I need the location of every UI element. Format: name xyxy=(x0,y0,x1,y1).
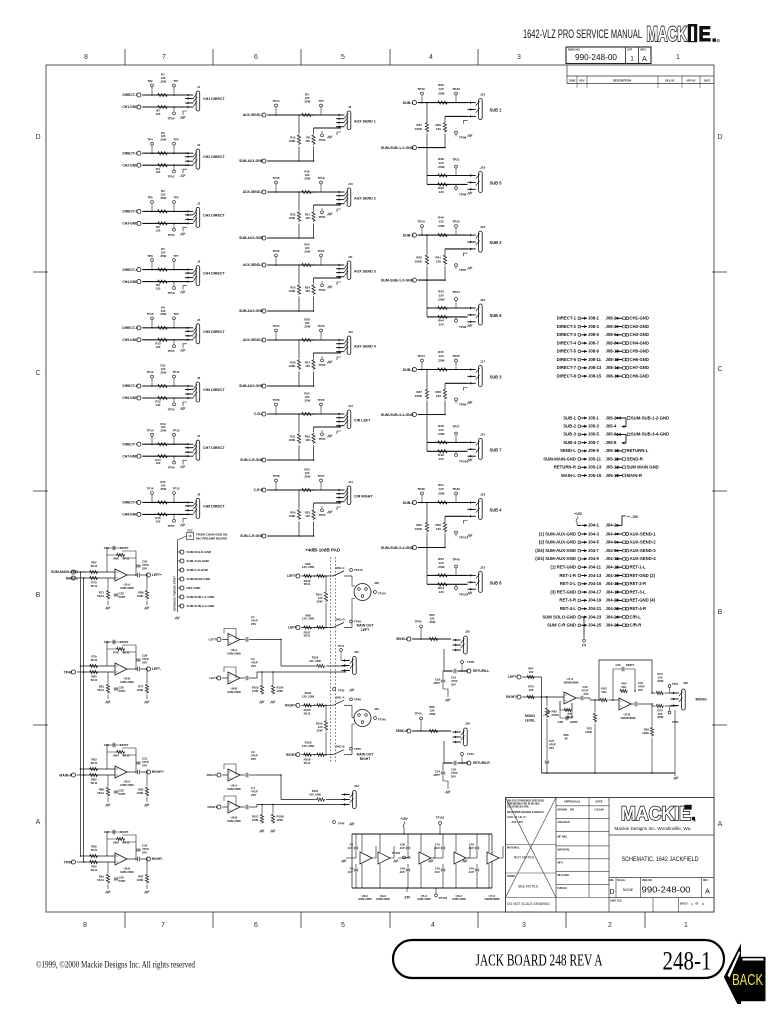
svg-text:.1UF: .1UF xyxy=(399,870,405,874)
svg-text:8: 8 xyxy=(84,54,88,61)
svg-text:NJM 2068: NJM 2068 xyxy=(227,690,241,694)
junction dots on input wire xyxy=(275,489,277,491)
resistor R16 120 .25W xyxy=(301,190,312,193)
wire DIRECT-1 to jack J1 tip xyxy=(142,94,187,96)
svg-text:.XXX ±.005: .XXX ±.005 xyxy=(511,822,523,824)
svg-text:100K: 100K xyxy=(289,289,297,293)
svg-text:RET-1-L: RET-1-L xyxy=(630,565,647,570)
svg-text:DWG NO.: DWG NO. xyxy=(642,880,653,882)
svg-text:CH5-GND: CH5-GND xyxy=(630,349,649,354)
svg-text:J18: J18 xyxy=(480,493,485,497)
feedback loop wires xyxy=(107,642,122,666)
test point TP99 and ground xyxy=(455,317,457,319)
svg-text:.25W: .25W xyxy=(304,324,311,328)
jack J6 CH6 DIRECT xyxy=(196,382,200,402)
resistor R35 120 .25W xyxy=(437,101,448,104)
svg-text:SEND-R: SEND-R xyxy=(627,456,643,461)
wire SUM-C-R-GND ground bus xyxy=(267,535,313,537)
PAD branch RIGHT+ (R101 R105 SW1-A) xyxy=(285,691,361,715)
svg-text:TP92: TP92 xyxy=(319,288,326,292)
decoupling caps C41/C42 .1UF xyxy=(428,834,445,888)
svg-text:J17: J17 xyxy=(480,360,485,364)
wire SUM-AUX-GND ground bus xyxy=(267,237,313,239)
svg-text:J08-9: J08-9 xyxy=(588,349,600,354)
svg-text:TP38: TP38 xyxy=(417,487,425,491)
decoupling caps C39/C40 .1UF xyxy=(393,834,410,888)
svg-text:TP11: TP11 xyxy=(173,370,180,374)
svg-text:DIRECT-1: DIRECT-1 xyxy=(122,93,137,97)
svg-text:120: 120 xyxy=(305,514,310,518)
svg-text:5K11: 5K11 xyxy=(97,594,104,598)
svg-text:DO NOT SCALE DRAWING: DO NOT SCALE DRAWING xyxy=(507,902,550,906)
svg-text:SUB-4: SUB-4 xyxy=(563,440,576,445)
svg-text:TP16: TP16 xyxy=(147,487,154,491)
wire CH5-GND to jack J5 sleeve xyxy=(142,339,187,341)
svg-text:J04-9: J04-9 xyxy=(588,556,600,561)
svg-text:TP98: TP98 xyxy=(459,193,467,197)
svg-text:J20: J20 xyxy=(480,298,485,302)
svg-text:CH6 DIRECT: CH6 DIRECT xyxy=(203,388,226,392)
resistor R89 5K11 feedback xyxy=(116,553,125,556)
resistors R53/R54 120 .25W xyxy=(437,574,448,577)
svg-text:REV. BY: REV. BY xyxy=(665,79,675,82)
SUB 3/SUB 7 jack block xyxy=(381,350,502,464)
jack J2 CH2 DIRECT xyxy=(196,149,200,169)
svg-text:TP101: TP101 xyxy=(459,536,468,540)
svg-text:DIRECT-4: DIRECT-4 xyxy=(122,268,137,272)
-15V label and TP104 xyxy=(404,887,448,900)
svg-text:NJM 2068: NJM 2068 xyxy=(358,897,372,901)
capacitor C55 50PF xyxy=(114,791,118,793)
svg-text:B: B xyxy=(718,609,723,616)
wire SUB-4 to jack J18 tip xyxy=(418,502,468,504)
resistor R5 120 .25W xyxy=(301,113,312,116)
svg-text:CH1 DIRECT: CH1 DIRECT xyxy=(203,97,226,101)
resistor R14 120 xyxy=(157,455,168,458)
svg-text:.25W: .25W xyxy=(160,79,167,83)
resistors R48/R49 120 .25W xyxy=(437,441,448,444)
svg-text:SUM-SUB-3-4-GND: SUM-SUB-3-4-GND xyxy=(381,413,414,417)
jack J20 SUB 6 xyxy=(479,304,483,325)
svg-text:6: 6 xyxy=(254,922,258,929)
svg-text:J1: J1 xyxy=(197,85,201,89)
svg-text:120 .25W: 120 .25W xyxy=(302,695,315,699)
svg-text:J04-21: J04-21 xyxy=(588,606,602,611)
AUX SEND 3 jack block xyxy=(239,243,376,314)
wire DIRECT-3 to jack J3 tip xyxy=(142,210,187,212)
svg-text:RIGHT-: RIGHT- xyxy=(286,753,297,757)
svg-text:1-22-99: 1-22-99 xyxy=(594,808,604,812)
capacitor C26 150PF feedback xyxy=(113,640,115,644)
wire ring contact to jack J10 xyxy=(314,204,342,206)
jack J17 SUB 3 xyxy=(479,366,483,387)
svg-text:RIGHT: RIGHT xyxy=(360,757,372,761)
test point TP32 xyxy=(455,228,457,236)
svg-text:248-1: 248-1 xyxy=(663,947,712,976)
resistor R77 100K output load and ground xyxy=(146,669,148,683)
SUB 1/SUB 5 jack block xyxy=(381,83,502,197)
svg-text:8: 8 xyxy=(83,922,87,929)
svg-text:J08-3: J08-3 xyxy=(588,324,600,329)
wires to op-amp U6-A inputs xyxy=(81,768,116,770)
svg-text:TP95: TP95 xyxy=(319,513,326,517)
svg-text:.1UF: .1UF xyxy=(347,870,353,874)
jack J12 AUX SEND 4 xyxy=(347,336,351,355)
svg-text:DATE: DATE xyxy=(595,800,602,804)
svg-text:RETURN-L: RETURN-L xyxy=(473,669,489,673)
svg-text:CH7-GND: CH7-GND xyxy=(122,454,138,458)
op-amp U7-A NJM4560M mono stage 1 xyxy=(558,677,590,740)
svg-text:SUM MAIN GND: SUM MAIN GND xyxy=(627,465,659,470)
svg-text:J29: J29 xyxy=(374,581,379,585)
resistor R78 5K11 feedback xyxy=(116,647,125,650)
svg-text:SUB 2: SUB 2 xyxy=(490,240,503,245)
svg-text:TP32: TP32 xyxy=(452,220,460,224)
svg-text:I: I xyxy=(690,23,696,46)
svg-text:6: 6 xyxy=(254,54,258,61)
svg-text:J04-19: J04-19 xyxy=(588,598,602,603)
svg-text:TP57: TP57 xyxy=(168,524,175,528)
wire SUM-SUB-1-2-GND ground bus xyxy=(418,279,445,281)
svg-text:100: 100 xyxy=(529,670,534,674)
svg-text:RET-2-R: RET-2-R xyxy=(630,581,647,586)
test point TP56 xyxy=(173,456,175,461)
test point TP33 xyxy=(421,228,423,236)
svg-text:150PF: 150PF xyxy=(120,640,129,644)
svg-text:5K11: 5K11 xyxy=(97,688,104,692)
svg-text:DIRECT-6: DIRECT-6 xyxy=(122,384,137,388)
svg-text:TP46: TP46 xyxy=(354,698,361,702)
test point TP96 and ground xyxy=(455,131,458,134)
svg-text:SUB-2: SUB-2 xyxy=(403,233,414,237)
resistor R23 120 .25W xyxy=(301,263,312,266)
svg-text:120: 120 xyxy=(156,228,161,232)
svg-text:(1): (1) xyxy=(582,643,586,647)
drawing border frame xyxy=(46,65,714,912)
junction dots on input wire xyxy=(275,114,277,116)
svg-text:SUM-SUB-3-4-GND: SUM-SUB-3-4-GND xyxy=(381,546,414,550)
svg-text:120 .25W: 120 .25W xyxy=(302,617,315,621)
svg-text:SUM-AUX-GND: SUM-AUX-GND xyxy=(187,559,210,563)
svg-text:RET-4-L: RET-4-L xyxy=(560,606,577,611)
svg-text:.25W: .25W xyxy=(429,620,436,624)
svg-text:J33: J33 xyxy=(354,784,359,788)
svg-text:100K: 100K xyxy=(642,731,650,735)
svg-text:J08-15: J08-15 xyxy=(588,373,602,378)
test point TP12 xyxy=(151,378,153,386)
svg-text:TP123: TP123 xyxy=(392,851,401,855)
svg-text:J04-25: J04-25 xyxy=(588,623,602,628)
wire ring contact to jack J18 xyxy=(445,515,468,517)
svg-text:TP9: TP9 xyxy=(173,312,179,316)
op-amp U6-A triangle xyxy=(115,766,127,778)
svg-text:120 .25W: 120 .25W xyxy=(309,793,321,797)
svg-text:100K: 100K xyxy=(415,527,423,531)
svg-text:DIRECT-5: DIRECT-5 xyxy=(122,326,137,330)
svg-text:120: 120 xyxy=(436,127,441,131)
wire SUM-SUB-3-4-GND ground bus xyxy=(418,414,445,416)
resistors R38/R39 120 .25W xyxy=(437,174,448,177)
svg-text:J22: J22 xyxy=(480,566,485,570)
test point TP21 xyxy=(320,257,322,265)
svg-text:25V: 25V xyxy=(638,688,643,692)
svg-text:.25W: .25W xyxy=(160,196,167,200)
svg-text:J04-3: J04-3 xyxy=(588,531,600,536)
capacitor C33 150PF feedback xyxy=(113,743,115,747)
svg-text:TP33: TP33 xyxy=(417,220,425,224)
svg-text:25V: 25V xyxy=(251,793,256,797)
resistor R31 100K shunt xyxy=(298,414,300,433)
resistor R84 5K11 feedback xyxy=(116,750,125,753)
XLR jack J32 MAIN OUT RIGHT xyxy=(349,705,386,761)
svg-text:SEND-L: SEND-L xyxy=(396,637,408,641)
svg-text:TP51: TP51 xyxy=(672,682,679,686)
svg-text:AUX SEND 4: AUX SEND 4 xyxy=(354,345,376,349)
svg-text:TP5: TP5 xyxy=(318,99,324,103)
svg-text:CH6-GND: CH6-GND xyxy=(122,396,138,400)
test point TP94 and ground xyxy=(321,430,323,433)
svg-text:TP144: TP144 xyxy=(378,592,386,596)
test point TP27 xyxy=(320,482,322,490)
svg-text:C: C xyxy=(35,370,40,377)
svg-text:AUX-SEND-3: AUX-SEND-3 xyxy=(630,548,657,553)
svg-text:100K: 100K xyxy=(415,127,423,131)
svg-text:TP97: TP97 xyxy=(459,268,467,272)
wire feed to lower jack J22 xyxy=(426,548,428,585)
svg-text:(3/4) SUM-AUX-GND: (3/4) SUM-AUX-GND xyxy=(535,548,576,553)
wire DIRECT-6 to jack J6 tip xyxy=(142,385,187,387)
svg-text:100K: 100K xyxy=(289,514,297,518)
ground xyxy=(183,344,187,348)
wire SUB-3 to jack J17 tip xyxy=(418,369,468,371)
R63 5K1 / R72 100K mono network xyxy=(585,686,615,773)
spare op-amp buffer U5-C NJM 2068 xyxy=(417,834,435,901)
test point TP11 xyxy=(173,378,175,386)
capacitor C30 50PF xyxy=(114,688,118,690)
CH7 DIRECT output block xyxy=(122,422,225,470)
jack J9 AUX SEND 1 xyxy=(347,111,351,130)
svg-text:OF: OF xyxy=(695,904,699,906)
svg-text:DATE: DATE xyxy=(704,79,711,82)
svg-text:SUB-3: SUB-3 xyxy=(563,432,576,437)
svg-text:TP50: TP50 xyxy=(168,116,175,120)
svg-text:TP24: TP24 xyxy=(273,324,280,328)
svg-text:MFG: MFG xyxy=(558,861,564,864)
svg-text:TP7: TP7 xyxy=(173,254,179,258)
svg-text:120: 120 xyxy=(436,527,441,531)
svg-text:25V: 25V xyxy=(142,850,147,854)
svg-text:J04-7: J04-7 xyxy=(588,548,600,553)
svg-text:SUM-AUX-GND: SUM-AUX-GND xyxy=(239,159,264,163)
wire CH3-GND to jack J3 sleeve xyxy=(142,222,187,224)
svg-text:50PF: 50PF xyxy=(119,792,126,796)
jack J4 CH4 DIRECT xyxy=(196,266,200,286)
svg-text:100K: 100K xyxy=(289,216,297,220)
svg-text:5K11: 5K11 xyxy=(91,658,98,662)
resistor R28 120 .25W xyxy=(301,338,312,341)
svg-text:TP40: TP40 xyxy=(452,558,460,562)
svg-text:CH4-GND: CH4-GND xyxy=(122,280,138,284)
spare op-amp buffer U6-C NJM 2068 xyxy=(452,834,470,901)
decoupling caps C43/C44 .1UF xyxy=(462,834,479,888)
svg-text:.1UF: .1UF xyxy=(468,846,474,850)
CH6 DIRECT output block xyxy=(122,364,225,412)
svg-text:CH5 DIRECT: CH5 DIRECT xyxy=(203,330,226,334)
spare op-amp buffer U9-C NJM 2068 xyxy=(376,834,394,901)
wire SUM-SUB-3-4-GND ground bus xyxy=(418,547,445,549)
resistor R9 120 .25W xyxy=(157,326,168,329)
svg-text:120: 120 xyxy=(156,461,161,465)
svg-text:-15V: -15V xyxy=(404,896,412,900)
svg-text:J7: J7 xyxy=(197,434,201,438)
resistor R50 120 shunt xyxy=(444,516,446,521)
svg-text:5K11: 5K11 xyxy=(123,557,130,561)
test point TP93 and ground xyxy=(321,356,323,359)
svg-text:.1UF: .1UF xyxy=(399,846,405,850)
resistor R1 120 .25W xyxy=(157,93,168,96)
svg-text:J04-17: J04-17 xyxy=(588,589,602,594)
svg-text:RET-3-R: RET-3-R xyxy=(559,598,576,603)
svg-text:20PT: 20PT xyxy=(433,681,440,685)
junction dots on tip wire xyxy=(151,385,153,387)
svg-text:C: C xyxy=(717,366,722,373)
svg-text:25V: 25V xyxy=(142,566,147,570)
test point TP3 xyxy=(173,145,175,153)
svg-text:J05-13: J05-13 xyxy=(588,465,602,470)
svg-text:BACK: BACK xyxy=(732,972,763,989)
svg-text:5K11: 5K11 xyxy=(304,634,311,638)
resistor R15 120 .25W xyxy=(157,501,168,504)
svg-text:J05-9: J05-9 xyxy=(588,448,600,453)
title block outline xyxy=(506,798,715,913)
svg-text:.25W: .25W xyxy=(304,474,311,478)
svg-text:5K11: 5K11 xyxy=(97,878,104,882)
svg-text:AUX-SEND-4: AUX-SEND-4 xyxy=(243,338,263,342)
resistor R51 120 .25W xyxy=(437,501,448,504)
svg-text:5K11: 5K11 xyxy=(91,584,98,588)
resistor R12 120 xyxy=(157,396,168,399)
resistors R87/R70 5K11 xyxy=(89,570,98,573)
size/scale/dwg-no/rev row xyxy=(609,878,715,898)
header MACKIE logo xyxy=(647,23,721,46)
C/R LEFT jack block xyxy=(240,392,371,463)
svg-text:990-248-00: 990-248-00 xyxy=(575,53,617,62)
resistor R33 120 .25W xyxy=(301,488,312,491)
svg-text:C25: C25 xyxy=(104,830,110,834)
title block MACKIE logo xyxy=(609,803,714,835)
svg-text:TP4B: TP4B xyxy=(467,660,474,664)
svg-text:TP42: TP42 xyxy=(338,689,345,693)
svg-text:SUM-MAIN-GND: SUM-MAIN-GND xyxy=(187,577,211,581)
PAD branch LEFT+ (R98 R100 SW1-C) xyxy=(287,562,363,586)
svg-text:J5: J5 xyxy=(197,318,201,322)
dwg-file / sheet row xyxy=(611,898,705,913)
svg-text:TP29: TP29 xyxy=(452,87,460,91)
svg-text:APPROVALS: APPROVALS xyxy=(564,800,581,804)
junction dots on input wire xyxy=(275,339,277,341)
svg-text:120: 120 xyxy=(156,287,161,291)
svg-text:RET-1-R: RET-1-R xyxy=(559,573,576,578)
svg-text:100K: 100K xyxy=(277,689,284,693)
svg-text:(1) SUM-AUX-GND: (1) SUM-AUX-GND xyxy=(539,531,576,536)
svg-text:MATERIAL:: MATERIAL: xyxy=(507,847,520,850)
wire DIRECT-5 to jack J5 tip xyxy=(142,327,187,329)
svg-text:J19: J19 xyxy=(480,166,485,170)
line driver U9-A NJM 2068 (right+) xyxy=(207,750,259,791)
junction dots on input wire xyxy=(275,264,277,266)
wire feed to lower jack J21 xyxy=(426,415,428,452)
svg-text:CH2 DIRECT: CH2 DIRECT xyxy=(203,155,226,159)
wire AUX-SEND-2 to jack J10 tip xyxy=(267,191,341,193)
svg-text:SUB 8: SUB 8 xyxy=(490,581,503,586)
svg-text:RIGHT-: RIGHT- xyxy=(208,805,218,809)
PAD branch LEFT- (R99 R107 SW1-D) xyxy=(288,613,361,637)
svg-text:TP31: TP31 xyxy=(452,158,460,162)
test point TP35 xyxy=(455,362,457,370)
junction dots on tip wire xyxy=(151,327,153,329)
test point TP26 xyxy=(275,406,277,414)
wires to op-amp U6-B inputs xyxy=(81,855,116,857)
svg-text:MFG ENG.: MFG ENG. xyxy=(558,874,570,877)
resistor R45 120 .25W xyxy=(437,368,448,371)
SEND-R/RETURN-R insert jack block (J28, R66, C34/C35) xyxy=(396,705,491,793)
SEND-L/RETURN-L insert jack block (J25, R65, C18/C19) xyxy=(396,613,489,701)
resistors R43/R44 120 .25W xyxy=(437,306,448,309)
svg-text:100K: 100K xyxy=(137,878,145,882)
resistor R86 5K11 to ground xyxy=(107,775,109,786)
svg-text:J08-11: J08-11 xyxy=(588,357,602,362)
svg-text:CH2-GND: CH2-GND xyxy=(630,324,649,329)
svg-text:1642-VLZ PRO SERVICE MANUAL: 1642-VLZ PRO SERVICE MANUAL xyxy=(523,29,642,41)
svg-text:.25W: .25W xyxy=(429,712,436,716)
test point TP31 xyxy=(455,168,457,176)
svg-text:TP56: TP56 xyxy=(168,466,175,470)
svg-text:120: 120 xyxy=(156,403,161,407)
capacitor C25 150PF feedback xyxy=(113,830,115,834)
svg-text:SUM-SUB-3-4-GND: SUM-SUB-3-4-GND xyxy=(187,604,216,608)
svg-text:(3) RET-GND: (3) RET-GND xyxy=(550,589,576,594)
svg-text:TP3: TP3 xyxy=(173,137,179,141)
test point TP51 xyxy=(173,165,175,170)
resistor R2 120 xyxy=(157,105,168,108)
GROUND TWEEK SPOT net list xyxy=(173,529,228,620)
svg-text:100K: 100K xyxy=(137,688,145,692)
svg-text:Mackie Designs Inc. Woodinvi: Mackie Designs Inc. Woodinville, Wa. xyxy=(615,826,692,831)
svg-text:SUM-SUB-1-2-GND: SUM-SUB-1-2-GND xyxy=(381,146,414,150)
svg-text:20PT: 20PT xyxy=(433,773,440,777)
svg-text:±1/64 .XX ±.01 ±1°: ±1/64 .XX ±.01 ±1° xyxy=(507,816,527,819)
svg-text:.25W: .25W xyxy=(437,297,444,301)
PAD switch dashed gang lines SW1 xyxy=(330,557,332,762)
svg-text:50KG: 50KG xyxy=(552,713,560,717)
svg-text:50PF: 50PF xyxy=(119,879,126,883)
svg-text:R78: R78 xyxy=(113,651,119,655)
svg-text:.25W: .25W xyxy=(437,358,444,362)
svg-text:CH3-GND: CH3-GND xyxy=(122,222,138,226)
svg-text:230PF: 230PF xyxy=(570,720,578,724)
line driver U9-B NJM 2068 (right-) xyxy=(208,786,259,823)
svg-text:.25W: .25W xyxy=(304,99,311,103)
svg-text:.25W: .25W xyxy=(437,224,444,228)
svg-text:DIRECT-5: DIRECT-5 xyxy=(557,349,577,354)
svg-text:J08-7: J08-7 xyxy=(588,340,600,345)
resistor R4 120 xyxy=(157,164,168,167)
svg-text:120 .25W: 120 .25W xyxy=(309,659,321,663)
junction dots on tip wire xyxy=(151,211,153,213)
test point TP2 xyxy=(151,87,153,95)
svg-text:TP25: TP25 xyxy=(318,398,325,402)
test point TP97 and ground xyxy=(455,264,458,267)
